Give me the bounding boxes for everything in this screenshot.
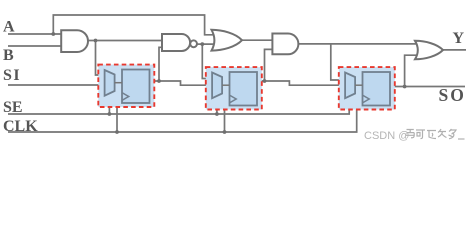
wire NAND output to OR1 <box>197 43 216 45</box>
junction SE cell2 <box>215 112 219 116</box>
wire CLK to FF2 clock <box>225 99 230 132</box>
wire mux1 select to SE <box>108 94 110 115</box>
junction A rail <box>51 32 55 36</box>
svg-text:Y: Y <box>453 30 465 47</box>
wire NAND branch to mux2 d0 <box>202 44 213 78</box>
wire B input <box>8 45 62 47</box>
svg-text:SI: SI <box>3 67 21 84</box>
junction NAND out <box>200 42 204 46</box>
wire FF1 Q to mux2 d1 <box>150 81 214 85</box>
wire OR2 output to Y <box>443 49 466 51</box>
wire FF1 Q to NAND input <box>159 47 163 81</box>
scan cell 3 <box>339 67 395 109</box>
wire SI input <box>8 84 106 86</box>
junction CLK cell2 <box>223 130 227 134</box>
or gate OR2 <box>415 41 443 60</box>
wire mux2 select to SE <box>216 96 218 114</box>
wire A input <box>8 33 62 35</box>
wire AND1 output to NAND <box>88 40 162 42</box>
junction CLK cell1 <box>115 130 119 134</box>
wire FF3 Q to OR2 input <box>405 55 418 86</box>
junction Q3 <box>403 85 407 89</box>
and gate AND2 <box>272 34 298 55</box>
scan cell 1 <box>98 65 154 107</box>
wire CLK to FF1 clock <box>117 97 122 133</box>
wire AND2 output to OR2 <box>298 43 418 45</box>
svg-text:CSDN @: CSDN @ <box>364 130 409 142</box>
nand gate NAND1 <box>162 34 190 51</box>
watermark chinese glyph strokes <box>406 129 465 139</box>
junction Q1 <box>157 79 161 83</box>
wire CLK input <box>8 99 363 132</box>
wire AND2 branch to mux3 d0 <box>331 44 346 80</box>
and gate AND1 <box>61 30 88 52</box>
wire FF3 Q to SO <box>390 86 465 88</box>
wire FF2 Q to AND2 input <box>265 49 273 81</box>
wire A to top rail <box>53 15 216 35</box>
svg-text:SE: SE <box>3 99 23 116</box>
svg-text:SO: SO <box>439 85 466 105</box>
svg-text:CLK: CLK <box>3 118 38 135</box>
junction Q2 <box>263 79 267 83</box>
junction SE cell1 <box>108 112 112 116</box>
svg-text:B: B <box>3 47 14 64</box>
wire SE input <box>8 96 349 115</box>
svg-text:A: A <box>3 19 15 36</box>
scan cell 2 <box>206 67 262 109</box>
wire FF2 Q to mux3 d1 <box>257 81 346 85</box>
junction AND1 out <box>94 39 98 43</box>
or gate OR1 <box>212 30 243 51</box>
nand bubble <box>190 40 197 47</box>
wire OR1 output to AND2 <box>242 39 272 41</box>
wire AND1 branch to mux1 d0 <box>96 41 106 76</box>
